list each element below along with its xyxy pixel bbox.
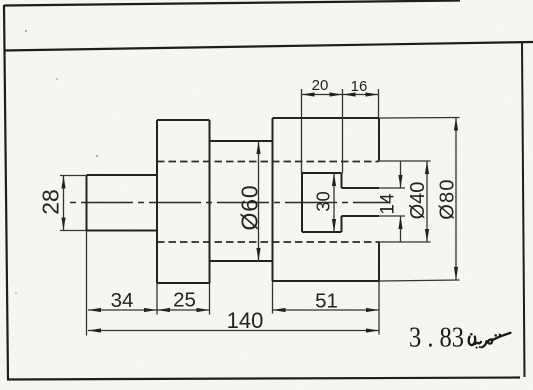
extension lines dia80: [379, 118, 460, 282]
arrow 14 top (outside): [398, 175, 402, 188]
arrow 51 right: [366, 308, 379, 312]
dimension line 20-16: [302, 94, 379, 96]
svg-text:25: 25: [173, 289, 196, 312]
border top: [4, 1, 460, 6]
dimension line 28: [63, 176, 65, 231]
arrow dia60 bottom: [256, 248, 260, 261]
arrow dia60 top: [256, 141, 260, 154]
dimension line dia80: [455, 118, 457, 281]
border left: [4, 5, 8, 380]
extension lines 14: [379, 188, 405, 216]
dimension line 140: [88, 330, 379, 332]
dimension line 51: [273, 309, 380, 311]
extension line 20 left: [301, 89, 303, 173]
arrow dia40 top: [425, 161, 429, 174]
arrow 140 left: [88, 328, 101, 332]
arrow 16 left: [343, 92, 356, 96]
svg-text:30: 30: [313, 191, 334, 212]
svg-text:16: 16: [351, 78, 368, 95]
svg-text:Ø40: Ø40: [407, 182, 429, 220]
extension line below A left: [86, 231, 88, 336]
extension line below x209.5: [209, 283, 211, 315]
arrow 51 left: [273, 308, 286, 312]
arrow 34 right: [144, 308, 157, 312]
arrow 34 left: [88, 308, 101, 312]
extension lines 28: [60, 176, 87, 231]
arrow 30 top: [332, 173, 336, 186]
border right: [522, 43, 525, 378]
inner bore neck (14x16): [342, 188, 380, 216]
dimension line dia60: [258, 141, 260, 261]
arrow 20 right: [330, 92, 343, 96]
hidden line bottom (dia 40 bore): [157, 241, 379, 243]
arrow 16 right: [366, 92, 379, 96]
svg-text:20: 20: [312, 77, 329, 94]
arrow dia80 top: [454, 118, 458, 131]
hidden line top (dia 40 bore): [157, 161, 379, 163]
center axis line: [70, 202, 388, 204]
dimension line dia40: [426, 161, 428, 242]
section B outline (left large collar): [157, 120, 210, 283]
extension line 20/16 middle: [342, 89, 344, 173]
extension line below x379: [378, 281, 380, 335]
svg-text:140: 140: [227, 308, 264, 333]
arrow 28 top: [61, 176, 65, 189]
dimension line 30: [333, 173, 335, 232]
section D outline (dia 80): [273, 118, 380, 281]
dimension line 14 outside segments: [400, 161, 402, 242]
svg-text:Ø80: Ø80: [437, 178, 459, 219]
border bottom: [7, 378, 520, 380]
extension lines dia40: [379, 161, 431, 242]
extension line 16 right: [378, 89, 380, 118]
section A outline (28 dia): [87, 175, 158, 231]
title arabic word tamrin (hand drawn): [469, 333, 511, 348]
arrow 20 left: [302, 92, 315, 96]
border divider: [4, 42, 533, 51]
section C outline (dia 60): [210, 141, 273, 261]
arrow 25 left: [157, 308, 170, 312]
dimension line 34-25: [88, 309, 210, 311]
arrow 14 bottom (outside): [398, 216, 402, 229]
extension line below x272.5: [272, 281, 274, 314]
svg-text:51: 51: [315, 290, 338, 313]
arrow dia40 bottom: [425, 229, 429, 242]
svg-text:Ø60: Ø60: [237, 185, 263, 231]
svg-text:3 . 83: 3 . 83: [409, 321, 464, 353]
arrow 30 bottom: [332, 219, 336, 232]
svg-text:34: 34: [111, 289, 134, 312]
arrow 25 right: [197, 308, 210, 312]
inner bore profile (30x20 pocket): [302, 173, 342, 232]
arrow 28 bottom: [61, 218, 65, 231]
arrow 140 right: [366, 328, 379, 332]
svg-text:14: 14: [378, 193, 399, 215]
extension line below x157: [156, 283, 158, 315]
arrow dia80 bottom: [454, 267, 458, 280]
svg-text:28: 28: [38, 189, 64, 215]
arrowheads: [61, 92, 458, 332]
scan specks: [15, 30, 98, 294]
